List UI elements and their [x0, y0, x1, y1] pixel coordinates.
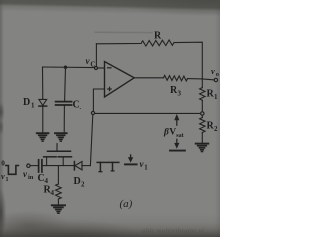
voltage indicator betaVsat arrow	[170, 114, 185, 151]
resistor R1	[200, 79, 205, 112]
svg-text:v: v	[211, 66, 215, 76]
capacitor C4	[39, 160, 42, 172]
svg-text:1: 1	[214, 93, 218, 101]
svg-text:able multivibrator vi: able multivibrator vi	[142, 228, 204, 235]
label D2	[74, 176, 86, 189]
label D1	[23, 97, 35, 110]
junction dot C top	[64, 66, 67, 69]
wire vC up to feedback corner	[95, 44, 97, 66]
label v1	[140, 159, 149, 171]
svg-text:4: 4	[51, 189, 55, 197]
svg-text:sat: sat	[176, 133, 183, 139]
wire feedback top horizontal	[96, 43, 141, 45]
input terminal vin circle	[27, 164, 30, 167]
wire vin to C4	[30, 165, 38, 167]
resistor R3	[164, 75, 188, 81]
label R4	[44, 185, 55, 198]
node + junction circle	[91, 111, 94, 114]
node vC terminal circle	[95, 67, 98, 70]
label C4	[38, 173, 49, 185]
wire beta feedback horizontal	[95, 112, 201, 114]
faint show-through streak	[95, 31, 152, 33]
output terminal vo circle	[214, 78, 217, 81]
resistor R	[141, 40, 174, 46]
capacitor C	[56, 102, 72, 133]
svg-text:C: C	[90, 61, 95, 69]
ground (below R2)	[196, 144, 209, 152]
caption (a)	[120, 198, 133, 210]
resistor R2	[200, 115, 205, 143]
waveform sketch (spikes at trigger, two T shapes)	[97, 162, 119, 171]
svg-text:o: o	[216, 71, 219, 78]
wire riser up to + node	[90, 115, 92, 166]
wire D2 to riser	[82, 165, 91, 167]
wire noninverting input left	[93, 89, 104, 111]
svg-text:R: R	[154, 31, 162, 42]
svg-text:2: 2	[81, 181, 85, 189]
wire D1 branch vertical	[42, 67, 44, 99]
label R2	[207, 121, 219, 134]
wire feedback to right corner	[174, 42, 202, 78]
blurred page text bottom right	[142, 228, 204, 235]
svg-text:1: 1	[31, 102, 35, 110]
svg-text:V: V	[169, 128, 176, 138]
label betaVsat	[163, 128, 184, 140]
ground (below R4)	[52, 205, 65, 213]
svg-text:v: v	[1, 171, 5, 181]
label 0	[1, 159, 5, 167]
diode D1	[39, 99, 47, 133]
label C	[73, 100, 82, 112]
wire top-left horizontal (D1/C top to vC)	[43, 66, 94, 69]
wire C branch vertical	[64, 67, 67, 101]
wire R3 to output node	[188, 79, 215, 80]
label R1	[207, 89, 219, 102]
wire C4 to D2	[43, 165, 74, 167]
op-amp U1	[105, 62, 135, 98]
wire op-amp output	[134, 77, 163, 79]
label vC	[86, 56, 96, 69]
input waveform sketch (0 / negative pulse)	[6, 166, 19, 175]
svg-text:1: 1	[144, 164, 148, 171]
svg-text:in: in	[28, 174, 34, 181]
ground (below D1)	[37, 133, 49, 141]
svg-text:β: β	[163, 128, 169, 138]
svg-text:.: .	[80, 105, 82, 111]
svg-text:3: 3	[178, 90, 182, 98]
label vo	[211, 66, 219, 78]
svg-text:D: D	[74, 176, 81, 187]
svg-text:1: 1	[6, 177, 9, 183]
diode D2	[74, 162, 82, 170]
svg-text:0: 0	[1, 159, 5, 167]
resistor R4	[56, 166, 62, 205]
voltage indicator v1	[125, 155, 137, 164]
svg-text:D: D	[23, 97, 30, 108]
label vi	[1, 171, 9, 183]
wire vC to inverting input	[98, 67, 105, 69]
node R1/R2 junction circle	[201, 112, 204, 115]
ground (below C)	[55, 133, 67, 141]
label R3	[170, 85, 182, 98]
label vin	[23, 169, 34, 181]
svg-text:(a): (a)	[120, 198, 133, 210]
label R	[154, 31, 162, 42]
svg-text:2: 2	[214, 125, 218, 133]
transistor Q1 sketch (gate-grounded MOSFET above trigger line)	[44, 144, 72, 166]
